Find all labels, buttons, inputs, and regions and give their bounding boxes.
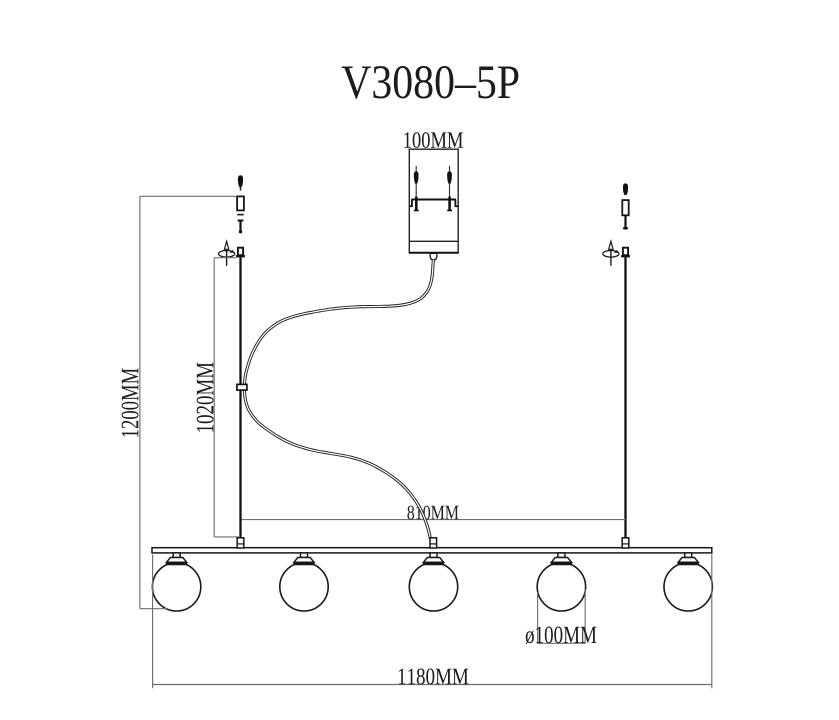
hanger right rotation symbol <box>603 241 619 265</box>
left hanger washer line <box>237 214 243 216</box>
right hanger screw shaft <box>624 215 626 227</box>
dimension text 1200MM <box>122 368 139 436</box>
glass globe G1 <box>152 563 200 611</box>
dimension text 1180MM <box>399 668 469 684</box>
hanger left rod head <box>236 248 245 258</box>
dimension text 810MM <box>407 506 458 520</box>
left rod connector block on bar <box>237 538 244 548</box>
dimension 1180MM lines <box>153 553 712 688</box>
right hanger screw cap <box>623 227 628 230</box>
left hanger screw <box>238 220 244 234</box>
right rod connector block on bar <box>622 538 629 548</box>
dimension text 100MM canopy <box>404 132 463 148</box>
dimension 1200MM lines <box>140 196 237 608</box>
glass globe G4 <box>537 563 585 611</box>
suspension bar <box>152 548 712 553</box>
right hanger sleeve <box>622 200 628 215</box>
glass globe G2 <box>280 563 328 611</box>
dimension text diameter 100MM <box>526 626 597 644</box>
dimension 1020MM lines <box>214 258 239 537</box>
cable connector block on bar <box>430 538 437 548</box>
lamp socket G2 <box>293 553 314 565</box>
glass globe G5 <box>664 563 712 611</box>
dimension 810MM line <box>242 519 626 521</box>
lamp socket G4 <box>551 553 572 565</box>
canopy cable stem <box>430 253 437 259</box>
left hanger sleeve <box>237 196 244 210</box>
hanger right rod head <box>621 248 630 258</box>
dimension diameter 100MM lines <box>538 589 586 644</box>
canopy bolt left <box>414 166 419 199</box>
hanger left rod <box>239 257 241 547</box>
lamp socket G5 <box>678 553 699 565</box>
canopy bolt right <box>447 166 452 199</box>
canopy body <box>409 149 459 253</box>
left hanger anchor screw <box>238 175 243 187</box>
lamp socket G3 <box>423 553 444 565</box>
hanger right rod <box>624 257 626 547</box>
canopy bracket bolts <box>414 197 452 212</box>
cable clip on left rod <box>237 384 247 390</box>
hanger left rotation symbol <box>219 241 235 265</box>
title V3080-5P <box>342 66 519 99</box>
hanging cable S curve <box>244 260 433 539</box>
right hanger anchor screw <box>623 183 628 195</box>
canopy mounting bracket <box>410 200 458 207</box>
glass globe G3 <box>409 563 457 611</box>
dimension text 1020MM <box>197 363 214 432</box>
lamp socket G1 <box>166 553 187 565</box>
